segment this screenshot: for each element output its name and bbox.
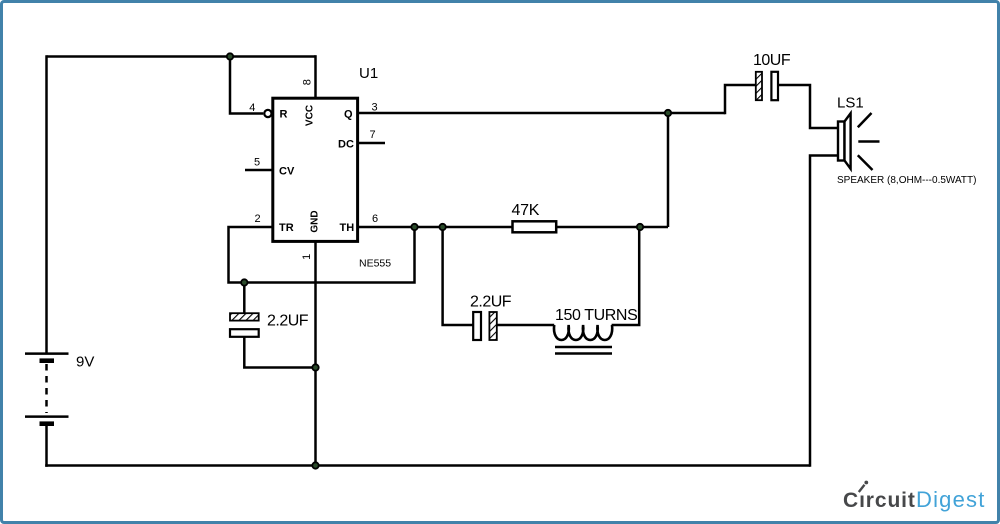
- node ground junction: [312, 364, 318, 370]
- capacitor C2 2.2UF: [473, 312, 497, 340]
- svg-text:3: 3: [371, 102, 377, 114]
- svg-text:47K: 47K: [512, 202, 540, 219]
- svg-text:DC: DC: [338, 139, 354, 151]
- node top-rail junction: [227, 53, 233, 59]
- inductor L1 150 TURNS: [554, 325, 612, 354]
- svg-text:5: 5: [254, 157, 260, 169]
- speaker LS1: [838, 113, 880, 170]
- wire 10UF to speaker top: [778, 85, 838, 128]
- svg-text:9V: 9V: [76, 354, 94, 371]
- svg-text:LS1: LS1: [837, 95, 864, 112]
- pin 4 inversion circle: [264, 110, 271, 117]
- wire pin 2 TR loop: [229, 227, 415, 283]
- wire output to 10UF cap: [725, 85, 756, 114]
- wire reset branch to pin 4: [230, 57, 263, 114]
- node output junction: [665, 110, 671, 116]
- svg-text:7: 7: [369, 129, 375, 141]
- svg-text:Cırcuit: Cırcuit: [843, 489, 916, 512]
- svg-text:6: 6: [372, 213, 378, 225]
- svg-text:R: R: [280, 109, 288, 121]
- wire pin 3 output: [358, 112, 725, 115]
- node bottom rail junction: [312, 462, 318, 468]
- CircuitDigest logo: [843, 481, 986, 512]
- wire speaker bottom to bottom rail: [810, 156, 838, 467]
- svg-text:8: 8: [302, 79, 314, 85]
- resistor R1 47K: [513, 221, 557, 232]
- svg-text:4: 4: [249, 102, 255, 114]
- wire bottom rail: [45, 464, 810, 467]
- svg-text:10UF: 10UF: [753, 52, 791, 69]
- wire pin 7 DC stub: [358, 142, 385, 145]
- svg-text:2.2UF: 2.2UF: [470, 293, 512, 310]
- svg-text:Q: Q: [344, 109, 353, 121]
- node TH junction B: [439, 224, 445, 230]
- svg-text:NE555: NE555: [359, 257, 391, 269]
- wire cap C2 to inductor: [497, 324, 554, 327]
- wire pin8 VCC drop: [314, 55, 317, 98]
- wire pin 1 GND down: [314, 241, 317, 465]
- wire battery negative lead: [45, 426, 48, 467]
- wire pin 6 TH to resistor: [358, 226, 513, 229]
- svg-text:2: 2: [254, 213, 260, 225]
- svg-text:U1: U1: [359, 65, 378, 82]
- svg-text:CV: CV: [279, 166, 295, 178]
- svg-text:1: 1: [301, 254, 313, 260]
- svg-text:TH: TH: [340, 222, 355, 234]
- node TR junction: [241, 279, 247, 285]
- battery BT1 9V: [25, 354, 69, 424]
- node TH junction C: [637, 224, 643, 230]
- svg-text:SPEAKER (8,OHM---0.5WATT): SPEAKER (8,OHM---0.5WATT): [837, 175, 976, 186]
- wire TH junction B down to cap C2: [443, 227, 473, 325]
- capacitor C3 10UF: [756, 72, 778, 100]
- wire output vertical drop: [667, 113, 670, 227]
- wire TR to cap C1: [243, 283, 246, 314]
- node TH junction A: [411, 224, 417, 230]
- svg-text:VCC: VCC: [305, 105, 316, 126]
- svg-text:TR: TR: [279, 222, 294, 234]
- wire resistor to output drop: [556, 226, 668, 229]
- svg-text:150 TURNS: 150 TURNS: [555, 307, 637, 324]
- wire cap C1 to ground node: [244, 337, 315, 368]
- op-amp timer U1 NE555 body: [273, 98, 358, 241]
- wire battery positive lead: [45, 55, 48, 352]
- capacitor C1 2.2UF (polarized): [230, 313, 259, 337]
- wire inductor to TH junction C: [612, 227, 640, 325]
- svg-text:2.2UF: 2.2UF: [267, 312, 309, 329]
- svg-text:Digest: Digest: [916, 487, 986, 512]
- svg-text:GND: GND: [309, 210, 320, 232]
- wire top rail: [47, 55, 316, 58]
- wire pin 5 CV stub: [245, 169, 273, 172]
